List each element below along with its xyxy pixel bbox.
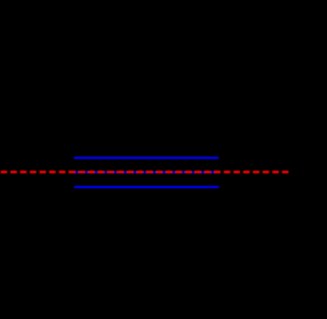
optical axis (red dashed line): [1, 171, 289, 174]
bottom plate (blue solid line): [74, 186, 219, 188]
center blue line (under dashed axis): [74, 171, 219, 173]
top plate (blue solid line): [74, 157, 219, 159]
